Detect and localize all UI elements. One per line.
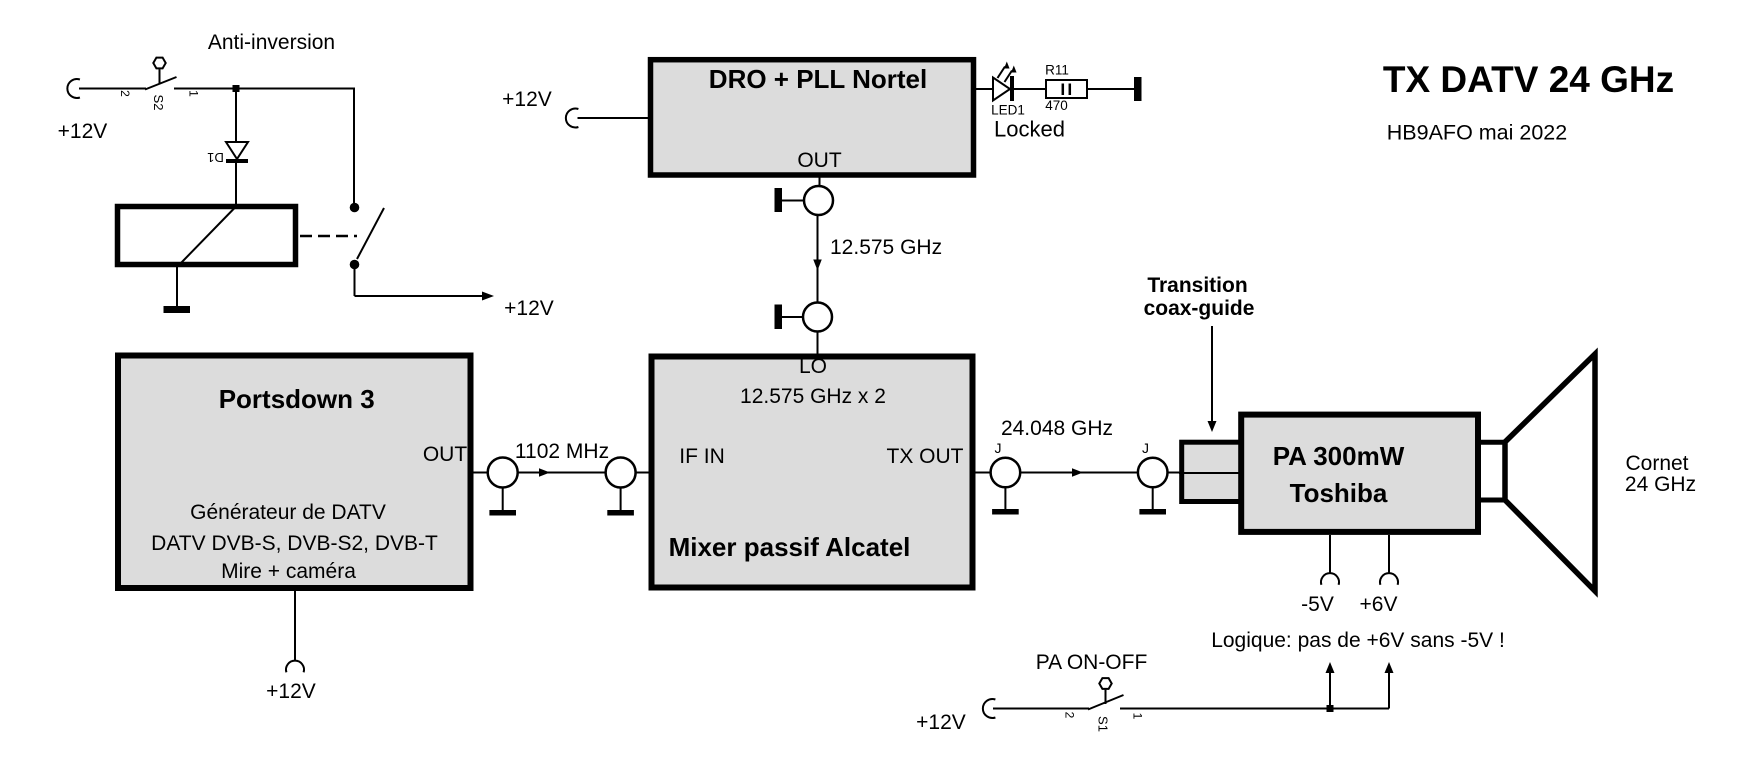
svg-text:470: 470 <box>1045 98 1068 113</box>
svg-text:OUT: OUT <box>797 149 842 172</box>
svg-text:12.575 GHz x 2: 12.575 GHz x 2 <box>740 385 886 408</box>
svg-text:Générateur de DATV: Générateur de DATV <box>190 501 386 524</box>
svg-text:D1: D1 <box>207 150 224 165</box>
svg-text:2: 2 <box>118 90 132 97</box>
svg-text:TX DATV 24 GHz: TX DATV 24 GHz <box>1383 59 1674 100</box>
svg-text:S2: S2 <box>151 95 166 111</box>
svg-text:Portsdown 3: Portsdown 3 <box>219 384 375 414</box>
svg-text:Toshiba: Toshiba <box>1290 478 1388 508</box>
svg-text:PA ON-OFF: PA ON-OFF <box>1036 651 1148 674</box>
svg-text:Transition: Transition <box>1147 274 1247 297</box>
svg-text:Locked: Locked <box>994 117 1065 142</box>
svg-text:J: J <box>1142 440 1149 456</box>
svg-text:PA 300mW: PA 300mW <box>1273 441 1405 471</box>
svg-text:2: 2 <box>1063 712 1077 719</box>
svg-text:DATV DVB-S, DVB-S2, DVB-T: DATV DVB-S, DVB-S2, DVB-T <box>151 532 438 555</box>
svg-text:12.575 GHz: 12.575 GHz <box>830 236 942 259</box>
svg-text:Logique: pas de +6V sans -5V !: Logique: pas de +6V sans -5V ! <box>1211 629 1505 652</box>
svg-text:J: J <box>995 440 1002 456</box>
svg-text:Mixer passif Alcatel: Mixer passif Alcatel <box>669 532 911 562</box>
svg-text:HB9AFO mai 2022: HB9AFO mai 2022 <box>1387 121 1567 145</box>
svg-text:DRO + PLL Nortel: DRO + PLL Nortel <box>709 64 927 94</box>
svg-text:+12V: +12V <box>916 711 966 734</box>
svg-text:TX OUT: TX OUT <box>887 445 964 468</box>
svg-text:+12V: +12V <box>266 680 316 703</box>
svg-text:Cornet: Cornet <box>1625 452 1688 475</box>
svg-text:R11: R11 <box>1045 63 1069 78</box>
svg-text:IF IN: IF IN <box>679 445 725 468</box>
svg-text:+12V: +12V <box>58 120 108 143</box>
svg-text:LO: LO <box>799 355 827 378</box>
svg-text:coax-guide: coax-guide <box>1144 297 1255 320</box>
svg-text:LED1: LED1 <box>991 103 1025 118</box>
svg-text:Mire + caméra: Mire + caméra <box>221 560 356 583</box>
svg-text:24.048 GHz: 24.048 GHz <box>1001 417 1113 440</box>
svg-text:+6V: +6V <box>1360 593 1398 616</box>
svg-text:1: 1 <box>187 90 201 97</box>
svg-text:1102 MHz: 1102 MHz <box>515 440 609 463</box>
svg-text:-5V: -5V <box>1301 593 1334 616</box>
svg-text:S1: S1 <box>1096 716 1111 732</box>
svg-text:1: 1 <box>1131 713 1145 720</box>
svg-text:+12V: +12V <box>502 88 552 111</box>
svg-text:24 GHz: 24 GHz <box>1625 473 1696 496</box>
svg-text:+12V: +12V <box>504 297 554 320</box>
svg-text:Anti-inversion: Anti-inversion <box>208 31 335 54</box>
svg-text:OUT: OUT <box>423 443 468 466</box>
